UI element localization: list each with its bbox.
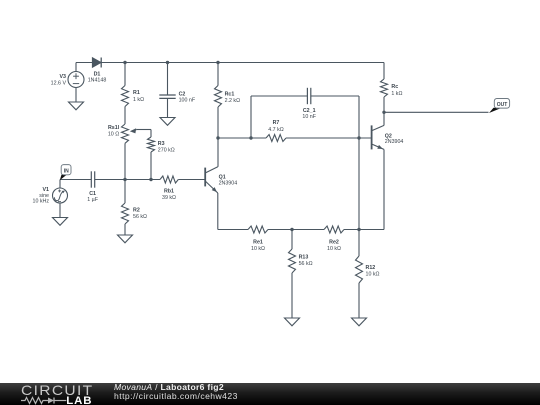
svg-text:R3: R3	[158, 141, 165, 147]
svg-text:IN: IN	[64, 169, 69, 175]
svg-text:10 kΩ: 10 kΩ	[327, 246, 341, 252]
svg-text:Rc1: Rc1	[225, 92, 235, 98]
svg-text:10 Ω: 10 Ω	[108, 131, 119, 137]
svg-text:Rb1: Rb1	[164, 189, 174, 195]
svg-text:12.6 V: 12.6 V	[51, 80, 67, 86]
svg-text:270 kΩ: 270 kΩ	[158, 148, 175, 154]
svg-text:1N4148: 1N4148	[88, 78, 107, 84]
svg-text:10 kΩ: 10 kΩ	[366, 272, 380, 278]
svg-text:56 kΩ: 56 kΩ	[299, 261, 313, 267]
svg-text:100 nF: 100 nF	[179, 98, 196, 104]
svg-text:R7: R7	[273, 120, 280, 126]
svg-text:1 kΩ: 1 kΩ	[133, 97, 144, 103]
svg-text:10 nF: 10 nF	[302, 114, 316, 120]
svg-text:2N3904: 2N3904	[385, 139, 404, 145]
svg-text:V3: V3	[60, 74, 67, 80]
svg-text:1 kΩ: 1 kΩ	[391, 91, 402, 97]
svg-text:10 kHz: 10 kHz	[33, 198, 50, 204]
svg-text:OUT: OUT	[497, 102, 508, 108]
svg-text:Re2: Re2	[329, 239, 339, 245]
svg-text:56 kΩ: 56 kΩ	[133, 214, 147, 220]
svg-text:R12: R12	[366, 265, 376, 271]
svg-text:2.2 kΩ: 2.2 kΩ	[225, 98, 240, 104]
svg-text:R1: R1	[133, 90, 140, 96]
svg-text:39 kΩ: 39 kΩ	[162, 195, 176, 201]
svg-text:10 kΩ: 10 kΩ	[251, 246, 265, 252]
svg-text:1 µF: 1 µF	[87, 197, 98, 203]
svg-text:4.7 kΩ: 4.7 kΩ	[268, 127, 283, 133]
svg-text:Rc: Rc	[391, 84, 398, 90]
svg-text:C1: C1	[89, 191, 96, 197]
svg-text:Rs1l: Rs1l	[108, 125, 120, 131]
svg-text:R13: R13	[299, 254, 309, 260]
svg-text:2N3904: 2N3904	[219, 181, 238, 187]
svg-text:Re1: Re1	[253, 239, 263, 245]
svg-text:R2: R2	[133, 207, 140, 213]
